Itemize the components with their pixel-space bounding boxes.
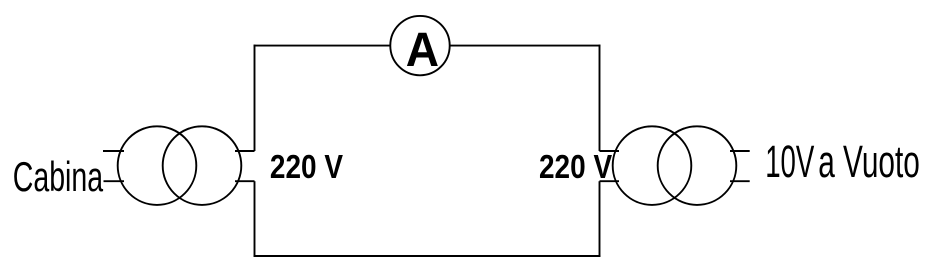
transformer T1 secondary winding circle [163,126,242,205]
node label 220 V (left, transformer T1 secondary voltage) [270,147,343,185]
ammeter A1 circle [390,16,449,75]
node label 220 V (right, transformer T2 primary voltage) [539,147,612,185]
wire T1 secondary lower lead [235,180,255,182]
transformer T2 secondary winding circle [658,126,737,205]
svg-text:A: A [406,23,439,77]
wire left vertical upper segment [254,45,256,151]
wire top-right segment (ammeter to right vertical) [450,45,601,47]
node label 10V a Vuoto (transformer T2 secondary) [765,137,815,188]
wire right vertical upper segment [599,45,601,151]
wire T2 secondary lower lead [730,180,750,182]
transformer T2 primary winding circle [613,126,692,205]
wire bottom segment [254,255,601,257]
wire T1 secondary upper lead [235,150,255,152]
wire T2 primary lower lead [600,180,620,182]
wire T1 primary lower lead [104,180,125,182]
wire right vertical lower segment [599,181,601,257]
svg-text:220 V: 220 V [270,147,343,185]
ammeter A1 label [406,23,439,77]
wire top-left segment (left vertical to ammeter) [254,45,391,47]
transformer T1 primary winding circle [118,126,197,205]
wire left vertical lower segment [254,181,256,257]
svg-text:220 V: 220 V [539,147,612,185]
wire T1 primary upper lead [103,150,124,152]
node label Cabina [13,154,103,201]
wire T2 primary upper lead [600,150,620,152]
svg-text:10V: 10V [765,137,815,188]
svg-text:a Vuoto: a Vuoto [818,137,920,188]
wire T2 secondary upper lead [730,150,750,152]
svg-text:Cabina: Cabina [13,154,103,201]
